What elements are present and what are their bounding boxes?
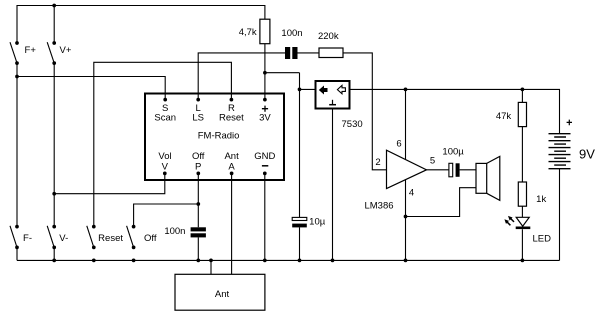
svg-text:3V: 3V bbox=[259, 112, 271, 123]
svg-text:LS: LS bbox=[192, 112, 204, 123]
svg-text:100n: 100n bbox=[281, 28, 302, 39]
svg-text:F+: F+ bbox=[25, 45, 37, 56]
svg-text:Off: Off bbox=[192, 151, 205, 162]
svg-text:6: 6 bbox=[396, 138, 401, 149]
svg-text:LED: LED bbox=[532, 234, 551, 245]
svg-text:GND: GND bbox=[254, 151, 275, 162]
svg-text:100n: 100n bbox=[164, 226, 185, 237]
svg-text:P: P bbox=[195, 161, 201, 172]
svg-text:10µ: 10µ bbox=[309, 217, 326, 228]
svg-text:7530: 7530 bbox=[342, 119, 363, 130]
svg-text:4: 4 bbox=[409, 187, 414, 198]
svg-text:Ant: Ant bbox=[224, 151, 239, 162]
svg-text:1k: 1k bbox=[536, 194, 546, 205]
svg-text:Ant: Ant bbox=[215, 289, 230, 300]
svg-text:4,7k: 4,7k bbox=[239, 27, 257, 38]
svg-text:FM-Radio: FM-Radio bbox=[198, 130, 240, 141]
svg-text:Reset: Reset bbox=[219, 112, 244, 123]
svg-text:5: 5 bbox=[430, 156, 435, 167]
svg-text:V-: V- bbox=[59, 233, 68, 244]
svg-text:47k: 47k bbox=[496, 111, 512, 122]
svg-text:V: V bbox=[162, 161, 169, 172]
svg-text:F-: F- bbox=[23, 233, 32, 244]
svg-text:Off: Off bbox=[144, 233, 157, 244]
svg-text:220k: 220k bbox=[318, 31, 339, 42]
svg-text:LM386: LM386 bbox=[364, 201, 393, 212]
svg-text:100µ: 100µ bbox=[442, 147, 464, 158]
svg-text:2: 2 bbox=[375, 157, 380, 168]
svg-text:A: A bbox=[228, 161, 235, 172]
svg-text:9V: 9V bbox=[579, 147, 595, 162]
svg-text:Scan: Scan bbox=[154, 112, 176, 123]
svg-text:Vol: Vol bbox=[158, 151, 171, 162]
svg-text:Reset: Reset bbox=[98, 233, 123, 244]
svg-text:V+: V+ bbox=[60, 45, 72, 56]
